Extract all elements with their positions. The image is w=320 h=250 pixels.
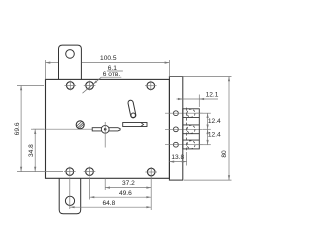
bottom mounting tab [59,178,80,213]
svg-text:64.8: 64.8 [102,200,115,207]
dim 100.5 line [46,62,59,64]
dim 13.8 line [169,161,186,163]
dim 49.6 arrows [90,196,95,198]
dim 37.2 line [105,187,151,189]
dim 34.8 arrow bottom [34,167,36,172]
dim 12.1 ext right [198,95,200,108]
dim 100.5 ext left [45,60,47,79]
dim 80 ext bottom [184,179,232,181]
ext line hole D down [69,177,71,209]
dim 69.6/34.8 ext bottom [17,171,63,173]
dim 69.6 arrow top [20,86,22,91]
capsule end hole [131,113,135,117]
bolt row 1 centerline [165,112,203,114]
svg-text:34.8: 34.8 [28,144,35,157]
callout leader [83,77,102,93]
ext line cam down [104,178,106,190]
cam boss circle [101,125,109,133]
faceplate hole 2 [174,127,179,132]
bolt 2 lower edge [183,133,200,135]
cam vertical centerline [104,122,106,148]
dim 34.8 arrow top [34,129,36,134]
slotted bar [123,123,147,127]
dim 12.4 arrows [207,113,209,118]
svg-text:100.5: 100.5 [100,55,117,62]
dim 49.6 line [90,196,152,198]
dim 69.6 ext top [17,85,44,87]
screw hole E bottom-mid [84,167,96,177]
dim 12.1 arrows [178,98,183,100]
faceplate strip [169,77,182,181]
svg-text:13.8: 13.8 [171,154,184,161]
dim 12.4 ext rows [196,112,211,114]
svg-text:12.4: 12.4 [208,132,221,139]
hidden line bolt rear [186,108,188,151]
cam bar [92,128,120,131]
screw hole C top-right [145,81,157,91]
dim 69.6 arrow bottom [20,167,22,172]
ext line hole E down [89,177,91,199]
svg-text:80: 80 [221,150,228,158]
svg-text:69.6: 69.6 [14,122,21,135]
dim 37.2 arrows [105,187,110,189]
bolt 3 upper edge [183,139,200,141]
svg-text:12.1: 12.1 [206,92,219,99]
bolt 1 lower edge [183,117,200,119]
slot chevron end [141,123,144,127]
bolt housing block [183,109,200,149]
dim 80 arrows [228,77,230,82]
top tab hole [66,50,75,59]
screw hole A top-left [65,81,77,91]
bottom tab hole [65,196,74,205]
screw hole D bottom-left [64,167,76,177]
adjusting screw with hatch [76,121,84,129]
dim 34.8 ext top [31,128,44,130]
bolt row 3 centerline [165,144,203,146]
faceplate hole 1 [174,111,179,116]
bolt row 2 centerline [165,128,203,130]
horizontal centerline middle row [33,128,93,130]
dim 100.5 ext right [168,60,170,77]
dim 64.8 line [70,206,151,208]
dim 12.1 line [177,98,219,100]
svg-text:37.2: 37.2 [122,180,135,187]
callout leader arrow [93,81,97,85]
dim 64.8 arrows [70,206,75,208]
dim 34.8 line [34,129,36,171]
dim 80 ext top [169,76,231,78]
dim 13.8 ext right [186,152,188,166]
bolt 3 hidden circle [187,141,195,149]
dim 80 line [228,77,230,181]
svg-text:12.4: 12.4 [208,118,221,125]
dim 12.4 line [207,113,209,145]
screw hole F bottom-right [145,167,157,177]
callout 6 otv underline [101,76,121,78]
cam center pin [104,128,107,131]
dim 69.6 line [20,86,22,172]
ext line hole F down [150,177,152,211]
lock body plate [46,79,170,178]
svg-text:49.6: 49.6 [119,190,132,197]
dim 13.8 arrows [169,161,174,163]
bolt 1 hidden circle [187,109,195,117]
bolt 2 hidden circle [187,125,195,133]
bolt 2 upper edge [183,124,200,126]
callout 6.1 underline [107,70,123,72]
dim 100.5 arrow left [46,62,51,64]
dim 100.5 arrow right [165,62,170,64]
screw hole B top-mid [84,81,96,91]
oblong slot capsule [128,100,137,119]
faceplate hole 3 [174,142,179,147]
top mounting tab [59,45,82,79]
